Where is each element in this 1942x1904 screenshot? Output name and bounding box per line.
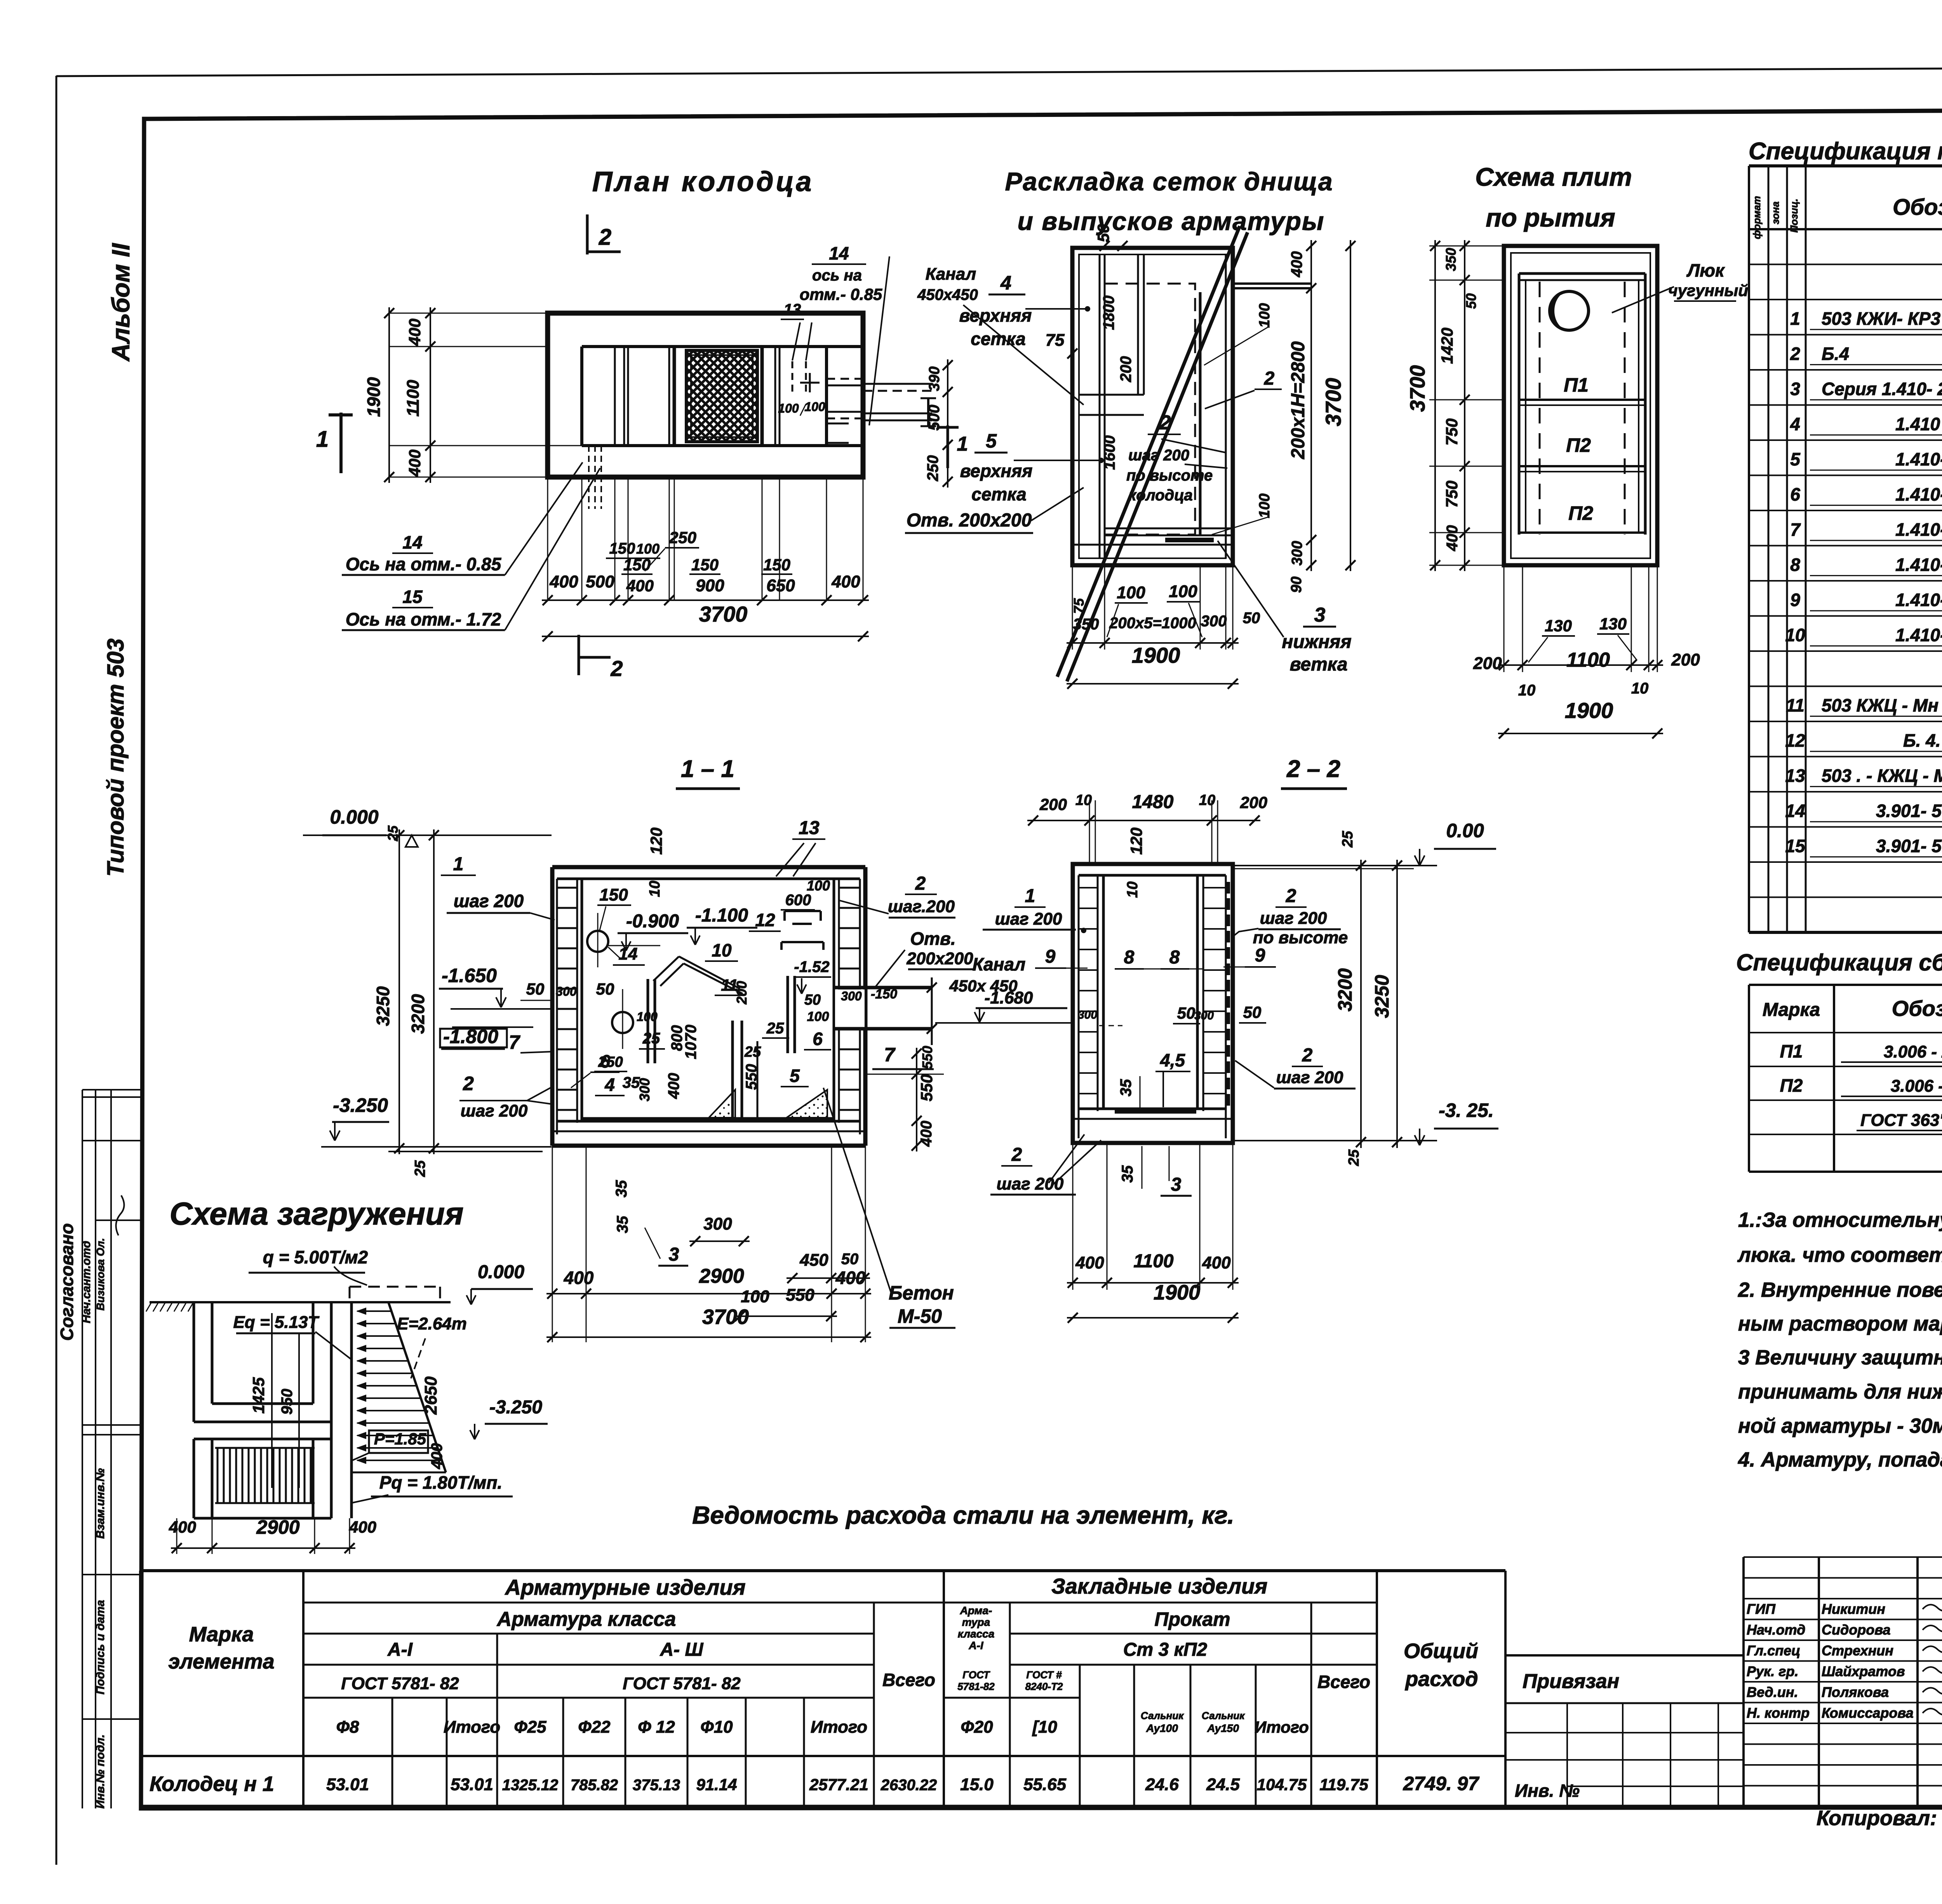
svg-text:Марка: Марка	[1763, 1000, 1820, 1020]
sec22 top dims	[1089, 800, 1090, 864]
svg-text:ГОСТ 363'4:61: ГОСТ 363'4:61	[1860, 1111, 1942, 1130]
sec11 concrete wedge right	[787, 1090, 827, 1118]
svg-text:Арматура класса: Арматура класса	[496, 1608, 676, 1631]
svg-text:шаг 200: шаг 200	[461, 1101, 528, 1120]
svg-text:14: 14	[829, 243, 849, 263]
svg-text:9: 9	[1045, 946, 1056, 967]
svg-text:950: 950	[278, 1389, 296, 1415]
svg-text:13: 13	[799, 818, 820, 838]
svg-text:4,5: 4,5	[1160, 1050, 1185, 1070]
sec22 top slab inner	[1079, 874, 1226, 877]
svg-text:75: 75	[1071, 598, 1087, 614]
svg-text:2: 2	[463, 1073, 474, 1094]
svg-text:2630.22: 2630.22	[881, 1777, 937, 1794]
svg-text:Шайхратов: Шайхратов	[1822, 1664, 1905, 1679]
svg-text:-3. 25.: -3. 25.	[1439, 1099, 1494, 1121]
svg-text:Б. 4.: Б. 4.	[1903, 730, 1941, 751]
raskladka bottom mesh lines	[1105, 528, 1233, 530]
sec11 canal opening right wall	[835, 989, 865, 1028]
svg-text:1900: 1900	[364, 377, 384, 417]
svg-text:50: 50	[596, 980, 614, 998]
steel table grid	[141, 1569, 1505, 1572]
svg-text:75: 75	[1046, 331, 1065, 350]
svg-text:Отв.: Отв.	[910, 928, 955, 949]
svg-text:Типовой проект 503: Типовой проект 503	[103, 639, 129, 877]
svg-text:5781-82: 5781-82	[957, 1681, 995, 1692]
raskladka bottom dims	[1072, 565, 1073, 650]
svg-text:2: 2	[1264, 368, 1275, 389]
svg-text:100: 100	[807, 878, 830, 894]
svg-text:50: 50	[526, 980, 545, 998]
svg-text:100: 100	[741, 1287, 769, 1306]
svg-text:200: 200	[1473, 654, 1502, 673]
svg-text:шаг.200: шаг.200	[888, 897, 955, 916]
svg-text:6: 6	[1790, 484, 1800, 505]
svg-text:1: 1	[1790, 308, 1800, 329]
svg-text:-1.680: -1.680	[985, 988, 1033, 1007]
svg-text:3: 3	[1171, 1174, 1182, 1195]
svg-text:тура: тура	[962, 1616, 990, 1628]
svg-text:400: 400	[835, 1268, 866, 1288]
svg-text:Ф10: Ф10	[700, 1718, 733, 1737]
svg-text:[10: [10	[1032, 1718, 1057, 1737]
svg-text:4: 4	[1000, 272, 1011, 294]
svg-text:Отв. 200х200: Отв. 200х200	[907, 510, 1032, 531]
svg-text:3700: 3700	[699, 602, 748, 626]
svg-text:24.6: 24.6	[1145, 1775, 1179, 1794]
svg-text:П2: П2	[1780, 1075, 1803, 1096]
load scheme pressure triangle	[388, 1302, 446, 1472]
sec11 wall ladder ticks left	[557, 887, 577, 889]
svg-text:элемента: элемента	[168, 1650, 274, 1673]
svg-text:и выпусков арматуры: и выпусков арматуры	[1018, 207, 1325, 235]
svg-text:10: 10	[712, 940, 732, 960]
svg-text:785.82: 785.82	[571, 1777, 618, 1794]
svg-text:Люк: Люк	[1686, 260, 1725, 280]
svg-text:шаг 200: шаг 200	[995, 909, 1062, 928]
sec11 interior middle bars	[731, 1021, 734, 1118]
plan inner chamber	[582, 345, 863, 348]
svg-text:3.901- 5: 3.901- 5	[1876, 801, 1942, 821]
svg-text:3250: 3250	[1371, 975, 1393, 1018]
svg-text:9: 9	[1255, 945, 1265, 966]
svg-text:3200: 3200	[408, 994, 428, 1034]
svg-text:130: 130	[1599, 615, 1627, 633]
svg-text:750: 750	[1443, 418, 1461, 446]
svg-text:1: 1	[957, 433, 968, 455]
svg-text:Привязан: Привязан	[1523, 1670, 1619, 1693]
svg-text:50: 50	[1243, 1003, 1262, 1021]
steel table header lines	[303, 1602, 1377, 1604]
svg-text:чугунный: чугунный	[1668, 281, 1748, 300]
svg-text:верхняя: верхняя	[959, 305, 1032, 326]
svg-text:650: 650	[766, 576, 795, 595]
svg-text:120: 120	[1127, 827, 1145, 855]
svg-text:400: 400	[564, 1268, 594, 1288]
plan pipe lines right	[863, 383, 932, 385]
svg-text:550: 550	[786, 1286, 814, 1305]
svg-text:250: 250	[669, 528, 696, 547]
svg-text:ГОСТ 5781- 82: ГОСТ 5781- 82	[341, 1674, 459, 1693]
svg-text:375.13: 375.13	[633, 1777, 680, 1794]
svg-text:150: 150	[599, 885, 628, 904]
sec11 interior tent lines	[653, 956, 679, 981]
svg-text:300: 300	[556, 984, 577, 998]
manhole circle	[1550, 291, 1589, 330]
svg-text:П2: П2	[1566, 434, 1591, 456]
title block signature table	[1742, 1557, 1745, 1806]
svg-text:4: 4	[1790, 414, 1800, 434]
svg-text:П1: П1	[1780, 1041, 1803, 1061]
svg-text:50: 50	[1463, 293, 1479, 309]
svg-text:-1.52: -1.52	[794, 958, 829, 976]
svg-text:-1.100: -1.100	[695, 905, 748, 926]
svg-text:400: 400	[1202, 1253, 1231, 1272]
svg-text:-1.650: -1.650	[442, 965, 497, 986]
svg-text:503 КЖЦ - Мн 28: 503 КЖЦ - Мн 28	[1822, 695, 1942, 716]
svg-text:Визикова Ол.: Визикова Ол.	[94, 1238, 106, 1311]
svg-text:шаг 200: шаг 200	[1260, 909, 1327, 928]
svg-text:1: 1	[316, 427, 329, 452]
svg-text:Н. контр: Н. контр	[1747, 1705, 1810, 1721]
svg-text:Б.4: Б.4	[1822, 344, 1849, 364]
svg-text:Колодец н 1: Колодец н 1	[150, 1772, 274, 1796]
svg-text:53.01: 53.01	[326, 1775, 369, 1794]
svg-text:104.75: 104.75	[1257, 1775, 1307, 1794]
slab schema bottom dims	[1503, 565, 1505, 672]
svg-text:2749. 97: 2749. 97	[1403, 1773, 1480, 1794]
plan wall vertical 2	[668, 347, 670, 446]
load scheme wall verticals	[330, 1302, 333, 1518]
svg-text:Итого: Итого	[1255, 1718, 1309, 1736]
svg-text:4. Арматуру, попадающую в отв: 4. Арматуру, попадающую в отверстия, выр…	[1738, 1448, 1942, 1471]
plan dim chain right	[947, 359, 948, 488]
svg-text:Инв.№ подл.: Инв.№ подл.	[94, 1734, 107, 1808]
svg-text:Нач.сант.отд: Нач.сант.отд	[80, 1241, 93, 1323]
svg-text:3250: 3250	[373, 986, 393, 1026]
sec22 top right level 0.00	[1233, 865, 1437, 866]
svg-text:1.410 -2 вып. 1: 1.410 -2 вып. 1	[1895, 414, 1942, 434]
sec22 outer walls	[1073, 864, 1233, 1143]
svg-text:ось на: ось на	[812, 267, 862, 284]
svg-text:35: 35	[613, 1180, 630, 1197]
svg-text:200х200: 200х200	[906, 949, 973, 968]
svg-text:400: 400	[169, 1518, 196, 1536]
svg-text:Согласовано: Согласовано	[57, 1223, 77, 1341]
svg-text:130: 130	[1545, 617, 1572, 635]
svg-text:по высоте: по высоте	[1126, 467, 1213, 484]
svg-text:400: 400	[1075, 1253, 1104, 1272]
svg-text:7: 7	[1790, 519, 1801, 540]
raskladka inner dashed mesh rect	[1105, 284, 1195, 535]
sec11 floor lines	[557, 1120, 860, 1123]
svg-text:400: 400	[1288, 251, 1305, 278]
svg-text:1: 1	[453, 854, 464, 874]
svg-text:550: 550	[743, 1064, 760, 1090]
sec11 interior right bar	[787, 976, 789, 1053]
slab schema dividers	[1519, 399, 1645, 401]
svg-text:300: 300	[1201, 613, 1227, 630]
svg-text:2 – 2: 2 – 2	[1286, 756, 1340, 782]
svg-text:1800: 1800	[1100, 296, 1117, 330]
section mark 2 top	[586, 214, 589, 254]
svg-text:1480: 1480	[1132, 792, 1174, 812]
svg-text:1 – 1: 1 – 1	[681, 756, 734, 782]
svg-text:1900: 1900	[1565, 698, 1613, 723]
svg-text:10: 10	[1518, 682, 1536, 699]
svg-text:-0.900: -0.900	[626, 911, 679, 932]
section mark 2 bottom	[578, 635, 580, 675]
svg-text:2: 2	[1302, 1045, 1313, 1066]
svg-text:Закладные изделия: Закладные изделия	[1051, 1574, 1267, 1598]
svg-text:1.410-2 вып. 1: 1.410-2 вып. 1	[1895, 625, 1942, 645]
svg-text:зона: зона	[1770, 202, 1781, 225]
svg-text:25: 25	[385, 825, 401, 841]
spec table 2 grid	[1748, 985, 1750, 1172]
svg-text:2: 2	[1790, 344, 1800, 364]
svg-text:2: 2	[915, 873, 926, 894]
svg-text:0.000: 0.000	[478, 1262, 524, 1282]
svg-text:4: 4	[604, 1075, 615, 1095]
svg-text:13: 13	[1785, 766, 1805, 786]
svg-text:3700: 3700	[1406, 365, 1429, 412]
svg-text:400: 400	[626, 577, 654, 595]
svg-text:Ст 3 кП2: Ст 3 кП2	[1123, 1639, 1208, 1660]
sec22 right dim chains	[1360, 860, 1362, 1148]
svg-text:люка. что соответствует абсолю: люка. что соответствует абсолютной отмет…	[1737, 1244, 1942, 1266]
svg-text:1.410-2 вып. 1: 1.410-2 вып. 1	[1895, 590, 1942, 610]
svg-text:2900: 2900	[256, 1516, 299, 1538]
svg-text:8240-Т2: 8240-Т2	[1025, 1681, 1063, 1692]
svg-text:-3.250: -3.250	[333, 1094, 388, 1116]
svg-text:Ау100: Ау100	[1146, 1722, 1178, 1734]
svg-text:450: 450	[799, 1251, 828, 1270]
svg-text:по рытия: по рытия	[1486, 203, 1615, 232]
sec22 wall ladder ticks	[1079, 887, 1098, 888]
svg-text:10: 10	[1124, 881, 1141, 898]
svg-text:100: 100	[1169, 582, 1197, 601]
svg-text:390: 390	[926, 366, 943, 391]
svg-text:750: 750	[1443, 481, 1461, 508]
section mark 1 left	[339, 413, 343, 473]
svg-text:300: 300	[841, 989, 862, 1003]
raskladka left partition	[1099, 254, 1101, 558]
svg-text:Инв. №: Инв. №	[1515, 1780, 1580, 1801]
svg-text:8: 8	[1124, 947, 1135, 968]
svg-text:14: 14	[619, 944, 638, 963]
svg-text:12: 12	[1785, 730, 1805, 751]
svg-text:1425: 1425	[249, 1377, 268, 1414]
svg-text:принимать для нижней армату: принимать для нижней арматуры - 35мм, дл…	[1738, 1380, 1942, 1403]
svg-text:Обозначение: Обозначение	[1893, 195, 1942, 220]
raskladka inner wall right	[1199, 292, 1202, 535]
svg-text:Арматурные изделия: Арматурные изделия	[504, 1575, 745, 1599]
sec11 wall ladder ticks right	[839, 887, 860, 889]
privyazan box	[1505, 1654, 1744, 1657]
raskladka dim chain right 3700	[1350, 240, 1351, 571]
svg-text:-3.250: -3.250	[489, 1397, 542, 1418]
svg-text:расход: расход	[1404, 1667, 1478, 1691]
svg-text:24.5: 24.5	[1206, 1775, 1240, 1794]
load scheme upper box	[193, 1302, 195, 1422]
svg-text:9: 9	[1790, 590, 1800, 610]
sec22 floor lines	[1079, 1108, 1226, 1110]
svg-text:Ось на отм.- 1.72: Ось на отм.- 1.72	[346, 609, 501, 629]
svg-text:1900: 1900	[1154, 1281, 1200, 1304]
svg-text:100: 100	[804, 400, 825, 414]
svg-text:35: 35	[614, 1216, 631, 1233]
svg-text:Вед.ин.: Вед.ин.	[1747, 1684, 1798, 1700]
svg-text:400: 400	[405, 319, 424, 346]
svg-text:150: 150	[763, 556, 790, 574]
slab schema left dim chain	[1464, 240, 1465, 571]
svg-text:2650: 2650	[421, 1376, 440, 1415]
svg-text:35: 35	[1119, 1165, 1136, 1183]
plan left dim chain	[388, 313, 548, 314]
svg-text:отм.- 0.85: отм.- 0.85	[800, 285, 882, 303]
svg-text:400: 400	[349, 1518, 376, 1536]
svg-text:3 Величину защитного слоя бет: 3 Величину защитного слоя бетона для раб…	[1738, 1346, 1942, 1369]
svg-text:503 . - КЖЦ - МН6: 503 . - КЖЦ - МН6	[1822, 766, 1942, 786]
svg-text:верхняя: верхняя	[960, 461, 1033, 481]
svg-text:Позиц.: Позиц.	[1788, 199, 1800, 233]
svg-text:15: 15	[402, 587, 423, 607]
svg-text:25: 25	[1340, 831, 1356, 848]
svg-text:50: 50	[804, 992, 821, 1008]
svg-text:7: 7	[509, 1031, 520, 1053]
raskladka dim chain right 1	[1310, 240, 1312, 571]
svg-text:400: 400	[428, 1443, 445, 1470]
load scheme bottom dims	[176, 1518, 177, 1554]
svg-text:350: 350	[1443, 248, 1459, 271]
svg-text:200: 200	[1671, 650, 1700, 669]
svg-text:Сальник: Сальник	[1202, 1710, 1245, 1721]
svg-text:2577.21: 2577.21	[809, 1775, 868, 1794]
svg-text:400: 400	[1444, 525, 1461, 552]
svg-text:q = 5.00Т/м2: q = 5.00Т/м2	[263, 1247, 368, 1267]
svg-text:3: 3	[669, 1244, 679, 1265]
svg-text:А-I: А-I	[968, 1639, 984, 1651]
svg-text:Ф25: Ф25	[514, 1718, 546, 1737]
svg-text:Арма-: Арма-	[960, 1604, 992, 1617]
svg-text:300: 300	[637, 1078, 653, 1101]
sec11 channel bracket 12	[785, 910, 821, 912]
svg-text:300: 300	[703, 1214, 732, 1233]
svg-text:Комиссарова: Комиссарова	[1822, 1705, 1914, 1721]
svg-text:П1: П1	[1564, 374, 1589, 396]
svg-text:ной арматуры - 30мм.: ной арматуры - 30мм.	[1738, 1414, 1942, 1437]
svg-text:35: 35	[1117, 1079, 1135, 1096]
raskladka outer wall	[1072, 248, 1233, 565]
svg-text:25: 25	[744, 1044, 761, 1060]
svg-text:Ось на отм.- 0.85: Ось на отм.- 0.85	[346, 554, 502, 574]
svg-text:1.410-2 вып. 1: 1.410-2 вып. 1	[1895, 484, 1942, 505]
svg-text:шаг 200: шаг 200	[454, 891, 524, 911]
svg-text:300: 300	[1078, 1009, 1097, 1021]
svg-text:1100: 1100	[1133, 1251, 1174, 1272]
load scheme ground line	[150, 1301, 451, 1303]
svg-text:2: 2	[599, 225, 611, 250]
svg-text:250: 250	[924, 455, 941, 482]
svg-text:0.000: 0.000	[330, 806, 378, 828]
svg-text:14: 14	[1785, 801, 1805, 821]
svg-text:3.006 - 2 вып. Ш - 2: 3.006 - 2 вып. Ш - 2	[1884, 1042, 1942, 1061]
svg-text:Ф20: Ф20	[961, 1718, 993, 1737]
svg-text:0.00: 0.00	[1446, 820, 1484, 841]
svg-text:-150: -150	[871, 987, 897, 1002]
svg-text:колодца: колодца	[1128, 487, 1193, 504]
svg-text:шаг 200: шаг 200	[1128, 447, 1189, 464]
svg-text:200: 200	[1240, 793, 1267, 812]
svg-text:Схема загружения: Схема загружения	[169, 1196, 463, 1232]
svg-text:Ведомость расхода стали на: Ведомость расхода стали на элемент, кг.	[692, 1501, 1234, 1529]
slab schema overall 3700	[1434, 240, 1436, 571]
load scheme soil hatch	[146, 1302, 151, 1312]
svg-text:1.410-2 вып. 1: 1.410-2 вып. 1	[1895, 449, 1942, 469]
svg-text:Альбом II: Альбом II	[107, 243, 135, 362]
svg-text:Никитин: Никитин	[1822, 1601, 1885, 1617]
svg-text:15: 15	[1785, 836, 1806, 856]
spec table 1 grid	[1748, 166, 1750, 932]
svg-text:Итого: Итого	[444, 1718, 500, 1737]
svg-text:5: 5	[986, 430, 997, 452]
svg-text:формат: формат	[1751, 196, 1763, 239]
svg-text:10: 10	[1075, 792, 1092, 808]
svg-text:100: 100	[1256, 303, 1273, 327]
plan os dashed lines lower	[588, 446, 590, 509]
plan wall vertical 1	[614, 347, 616, 446]
stamp grid below privyazan	[1505, 1732, 1744, 1733]
svg-text:119.75: 119.75	[1319, 1775, 1368, 1794]
svg-text:1420: 1420	[1438, 327, 1456, 364]
svg-text:3.901- 5: 3.901- 5	[1876, 836, 1942, 856]
svg-text:100: 100	[636, 541, 660, 557]
svg-text:Сидорова: Сидорова	[1822, 1622, 1891, 1638]
slab schema outer wall	[1504, 246, 1657, 565]
svg-text:100: 100	[778, 401, 799, 415]
svg-text:Стрехнин: Стрехнин	[1822, 1643, 1893, 1658]
svg-text:150: 150	[691, 556, 719, 574]
svg-text:Ф22: Ф22	[578, 1718, 611, 1737]
svg-text:по высоте: по высоте	[1253, 928, 1348, 947]
svg-text:Рq = 1.80Т/мп.: Рq = 1.80Т/мп.	[379, 1472, 503, 1493]
svg-text:нижняя: нижняя	[1282, 632, 1351, 652]
svg-text:5: 5	[790, 1066, 800, 1086]
sec11 dim 3250 3200	[398, 829, 400, 1154]
svg-text:200: 200	[1117, 356, 1135, 383]
svg-text:Марка: Марка	[189, 1623, 254, 1646]
svg-text:ным раствором марки 50 с: ным раствором марки 50 с железнением.	[1738, 1312, 1942, 1335]
svg-text:Ау150: Ау150	[1207, 1722, 1239, 1734]
svg-text:25: 25	[1346, 1149, 1362, 1166]
svg-text:91.14: 91.14	[696, 1775, 737, 1794]
plan leaders from label 13/14	[792, 322, 800, 361]
svg-text:Спецификация сборных железобет: Спецификация сборных железобетонных элем…	[1736, 949, 1942, 976]
sec11 concrete wedge left	[709, 1090, 735, 1118]
sec22 wall inner lines	[1078, 875, 1080, 1138]
svg-text:Спецификация монолитной жел.: Спецификация монолитной жел.Бет. констру…	[1749, 138, 1942, 165]
svg-text:100: 100	[1117, 583, 1145, 602]
svg-text:1: 1	[1025, 886, 1035, 906]
sec11 salnik circles	[587, 931, 608, 952]
svg-text:8: 8	[1169, 947, 1180, 968]
svg-text:1.410-2 вып. 1: 1.410-2 вып. 1	[1895, 519, 1942, 540]
svg-text:50: 50	[841, 1251, 859, 1268]
svg-text:12: 12	[755, 910, 775, 930]
sec11 bottom overall dims	[552, 1146, 553, 1342]
svg-text:100: 100	[807, 1009, 829, 1024]
svg-text:Общий: Общий	[1404, 1639, 1478, 1663]
